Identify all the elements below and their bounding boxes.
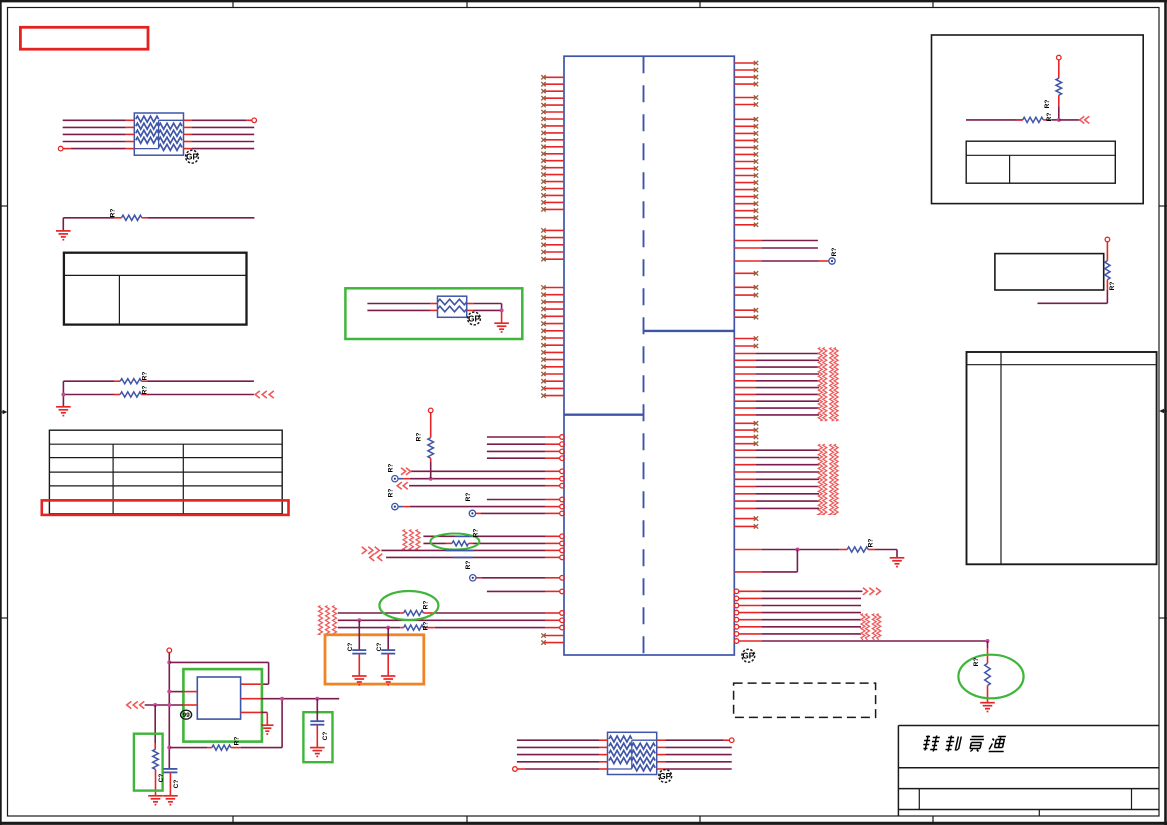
svg-text:R?: R?: [110, 209, 117, 218]
svg-text:R?: R?: [473, 529, 480, 538]
svg-text:R?: R?: [416, 433, 423, 442]
svg-text:C?: C?: [376, 643, 383, 652]
svg-text:GP: GP: [742, 652, 754, 661]
svg-text:R?: R?: [142, 386, 149, 395]
svg-text:GP: GP: [468, 315, 480, 324]
svg-text:C?: C?: [322, 732, 329, 741]
svg-text:R?: R?: [1044, 100, 1051, 109]
svg-text:R?: R?: [142, 372, 149, 381]
svg-text:R?: R?: [831, 248, 838, 257]
svg-text:GP: GP: [186, 153, 198, 162]
svg-text:99: 99: [182, 712, 190, 719]
svg-text:R?: R?: [388, 464, 395, 473]
svg-text:R?: R?: [423, 622, 430, 631]
svg-text:C?: C?: [173, 780, 180, 789]
svg-text:R?: R?: [465, 561, 472, 570]
svg-text:C?: C?: [158, 774, 165, 783]
svg-text:R?: R?: [388, 489, 395, 498]
svg-text:GP: GP: [659, 772, 671, 781]
svg-text:R?: R?: [973, 658, 980, 667]
svg-text:R?: R?: [1109, 282, 1116, 291]
svg-text:C?: C?: [347, 643, 354, 652]
svg-text:R?: R?: [465, 493, 472, 502]
svg-text:R?: R?: [423, 601, 430, 610]
svg-text:R?: R?: [1046, 113, 1053, 122]
svg-text:R?: R?: [234, 737, 241, 746]
svg-text:R?: R?: [868, 539, 875, 548]
